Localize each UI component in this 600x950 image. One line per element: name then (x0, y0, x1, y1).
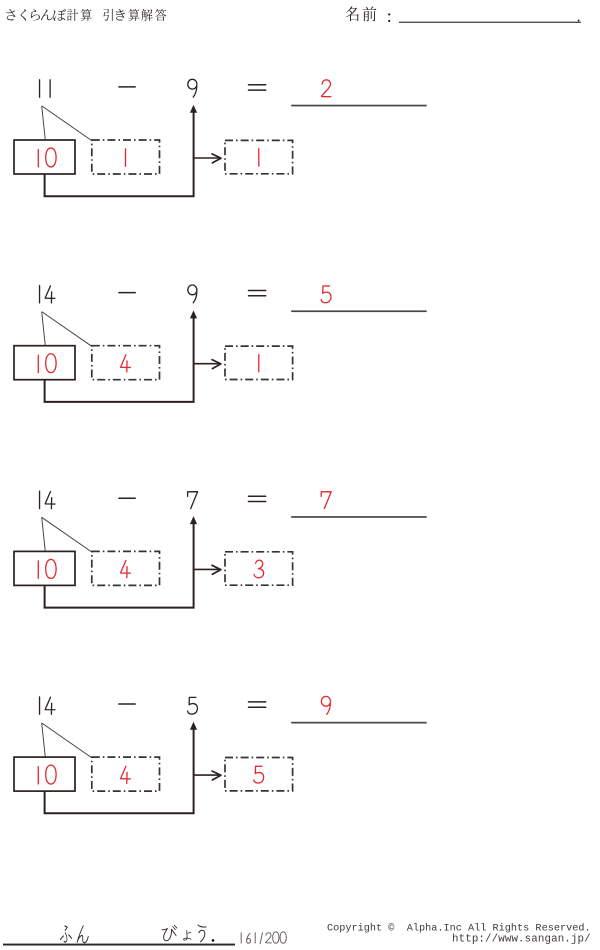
ones value 4 (red) (121, 561, 131, 578)
ones value 1 (red) (125, 149, 127, 166)
right arrow wire (195, 157, 220, 159)
ones box (dash-dot) (92, 551, 160, 585)
cherry branch lines (42, 106, 93, 141)
ones box (dash-dot) (92, 757, 160, 791)
cherry branch lines (42, 312, 93, 347)
minus sign (119, 86, 135, 88)
equals sign (249, 291, 266, 296)
L-shaped arrow wire from tens box up to subtrahend (45, 318, 194, 402)
result value 5 (red) (254, 766, 264, 783)
equals sign (249, 702, 266, 707)
footer time underline (3, 944, 235, 946)
problem number 161/200 (241, 932, 286, 944)
arrowhead up (190, 310, 197, 318)
subtrahend 9 (188, 285, 197, 303)
right arrow wire (195, 568, 220, 570)
minuend 11 (39, 80, 41, 97)
L-shaped arrow wire from tens box up to subtrahend (45, 524, 194, 608)
tens value 10 (red) (38, 559, 56, 578)
name underline (399, 22, 581, 23)
tens box (solid) (14, 346, 75, 380)
minus sign (119, 703, 135, 705)
answer underline (291, 516, 427, 518)
minus sign (119, 292, 135, 294)
ones box (dash-dot) (92, 140, 160, 174)
result value 1 (red) (258, 149, 260, 166)
subtrahend 5 (188, 697, 198, 714)
answer underline (291, 105, 427, 107)
right arrowhead (open) (212, 154, 221, 163)
subtrahend 9 (188, 79, 197, 97)
answer 9 (red) (321, 696, 330, 714)
right arrowhead (open) (212, 360, 221, 369)
right arrow wire (195, 363, 220, 365)
result box (dash-dot) (225, 758, 293, 791)
L-shaped arrow wire from tens box up to subtrahend (45, 729, 194, 813)
subtrahend 7 (188, 492, 198, 509)
byou (seconds) label (162, 925, 178, 942)
name label 名前: (346, 6, 391, 22)
tens value 10 (red) (38, 765, 56, 784)
answer underline (291, 310, 427, 312)
svg-text:http://www.sangan.jp/: http://www.sangan.jp/ (452, 934, 591, 946)
arrowhead up (190, 516, 197, 524)
cherry branch lines (42, 517, 93, 552)
tens value 10 (red) (38, 354, 56, 373)
right arrowhead (open) (212, 771, 221, 780)
result box (dash-dot) (225, 346, 293, 379)
minuend 14 (39, 491, 41, 508)
equals sign (249, 496, 266, 501)
result value 3 (red) (254, 560, 264, 578)
equals sign (249, 85, 266, 90)
svg-text:Copyright © Alpha.Inc All Rig: Copyright © Alpha.Inc All Rights Reserve… (327, 922, 591, 934)
tens box (solid) (14, 551, 75, 585)
tens value 10 (red) (38, 148, 56, 167)
arrowhead up (190, 722, 197, 730)
right arrowhead (open) (212, 565, 221, 574)
answer 5 (red) (321, 286, 331, 303)
ones box (dash-dot) (92, 346, 160, 380)
minuend 14 (39, 697, 41, 714)
answer underline (291, 722, 427, 724)
cherry branch lines (42, 723, 93, 758)
ones value 4 (red) (121, 355, 131, 372)
L-shaped arrow wire from tens box up to subtrahend (45, 112, 194, 196)
minuend 14 (39, 286, 41, 303)
answer 2 (red) (322, 80, 331, 97)
minus sign (119, 497, 135, 499)
result box (dash-dot) (225, 140, 293, 173)
arrowhead up (190, 105, 197, 113)
tens box (solid) (14, 757, 75, 791)
result value 1 (red) (258, 354, 260, 371)
right arrow wire (195, 774, 220, 776)
ones value 4 (red) (121, 766, 131, 783)
answer 7 (red) (321, 492, 331, 509)
header title: sakuranbo keisan hikizan kaitou (6, 9, 166, 21)
result box (dash-dot) (225, 552, 293, 585)
tens box (solid) (14, 140, 75, 174)
fun (minutes) label (60, 925, 214, 944)
